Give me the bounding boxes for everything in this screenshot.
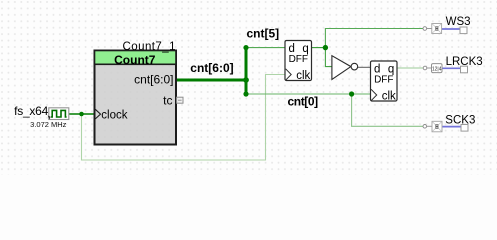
wire cnt[0] main run	[246, 93, 371, 95]
node bus bottom cnt[0]	[243, 91, 248, 96]
node bus top cnt[5]	[243, 45, 248, 50]
svg-text:3.072 MHz: 3.072 MHz	[30, 120, 67, 129]
connector circle WS3	[423, 27, 427, 31]
pad LRCK3	[432, 64, 443, 73]
wire WS3 blue	[442, 28, 460, 30]
svg-text:12|4: 12|4	[432, 66, 442, 72]
wire LRCK3 from DFF2 q	[397, 67, 423, 69]
svg-text:clk: clk	[296, 70, 310, 82]
bus cnt[6:0] vertical	[245, 48, 248, 94]
flip-flop U DFF2	[371, 61, 398, 102]
node DFF1 q	[323, 45, 328, 50]
wire cnt[5] bus tap to DFF1 d	[246, 47, 285, 49]
wire stub LRCK3 circle to pad	[427, 67, 432, 69]
svg-text:cnt[6:0]: cnt[6:0]	[134, 72, 173, 86]
wire stub WS3 circle to pad	[427, 28, 433, 30]
terminal WS3	[460, 27, 467, 34]
svg-text:cnt[6:0]: cnt[6:0]	[190, 61, 233, 75]
wire cnt[0] spur to SCK3 pad	[352, 94, 424, 126]
terminal LRCK3	[461, 66, 468, 73]
input source waveform icon	[48, 108, 69, 120]
svg-text:SCK3: SCK3	[445, 115, 475, 127]
svg-text:DFF: DFF	[289, 54, 308, 65]
bus cnt[6:0] horizontal	[176, 79, 246, 82]
svg-text:clock: clock	[101, 109, 127, 121]
wire feedback net fs_x64 to DFF1 clk	[82, 75, 286, 161]
svg-text:LRCK3: LRCK3	[446, 56, 483, 68]
background grid	[0, 0, 497, 175]
svg-text:WS3: WS3	[446, 16, 471, 28]
svg-text:clk: clk	[382, 90, 396, 102]
pad WS3	[432, 24, 442, 34]
svg-text:Count7_1: Count7_1	[123, 41, 176, 53]
node bus T	[243, 77, 249, 83]
pin clock input chevron	[95, 109, 100, 119]
wire DFF1 q to node	[312, 47, 326, 49]
connector circle SCK3	[423, 125, 427, 129]
pad SCK3	[432, 121, 442, 132]
svg-text:cnt[0]: cnt[0]	[288, 94, 319, 108]
wire node to WS3 pad	[325, 29, 424, 48]
pin tc open-square marker	[177, 97, 183, 103]
inverter U1	[332, 56, 358, 80]
wire fs_x64 to clock	[69, 113, 95, 115]
counter U Count7_1 block	[95, 51, 177, 145]
flip-flop U DFF1	[285, 41, 312, 82]
terminal SCK3	[461, 125, 468, 132]
node cnt[0] SCK3 tap	[349, 91, 354, 96]
svg-text:tc: tc	[163, 93, 172, 107]
svg-text:DFF: DFF	[374, 74, 393, 85]
wire stub SCK3 circle to pad	[427, 125, 433, 127]
junction fs_x64	[79, 112, 84, 117]
svg-text:Count7: Count7	[114, 53, 156, 67]
wire SCK3 blue	[442, 126, 461, 128]
wire inverter output to DFF2 d	[358, 66, 371, 68]
connector circle LRCK3	[423, 66, 427, 70]
svg-text:fs_x64: fs_x64	[14, 104, 48, 118]
svg-text:cnt[5]: cnt[5]	[247, 26, 280, 40]
wire LRCK3 blue	[442, 67, 461, 69]
wire node down to inverter input	[325, 48, 332, 67]
